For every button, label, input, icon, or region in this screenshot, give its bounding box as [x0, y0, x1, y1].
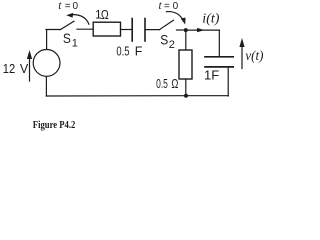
svg-text:V: V: [20, 62, 29, 76]
bottom junction node dot: [184, 94, 188, 98]
svg-text:Figure P4.2: Figure P4.2: [33, 120, 76, 131]
arrow source polarity (12 V, up): [27, 50, 32, 81]
switch S1: [46, 21, 93, 29]
bottom rail wire: [46, 95, 228, 97]
svg-text:12: 12: [3, 62, 15, 76]
svg-text:v(t): v(t): [245, 49, 263, 64]
svg-text:2: 2: [169, 39, 175, 51]
svg-text:t: t: [58, 0, 62, 12]
current arrow i(t): [197, 28, 205, 32]
arrow S1 actuation (curved, head left): [66, 13, 89, 24]
wire node A to right corner: [186, 29, 220, 31]
capacitor C2 1 F: [205, 57, 233, 67]
wire right corner down to capacitor C2: [218, 30, 220, 56]
wire node A down to resistor R2: [185, 30, 187, 50]
svg-text:Ω: Ω: [171, 77, 178, 91]
wire source bottom to bottom rail: [45, 77, 47, 96]
svg-text:0.5: 0.5: [156, 77, 168, 91]
resistor R1 1 ohm: [93, 22, 120, 36]
svg-text:1: 1: [72, 37, 78, 49]
svg-text:0.5: 0.5: [116, 45, 129, 59]
arrow S2 actuation (curved, head down-right): [167, 12, 186, 25]
node A junction dot (top): [184, 28, 188, 32]
wire R1 to capacitor C1: [121, 29, 132, 31]
svg-text:S: S: [63, 30, 71, 46]
svg-text:= 0: = 0: [164, 1, 179, 12]
svg-text:F: F: [135, 45, 143, 59]
wire R2 to bottom junction: [185, 79, 187, 96]
svg-text:= 0: = 0: [65, 1, 79, 12]
svg-text:S: S: [160, 32, 168, 48]
switch S2: [145, 20, 186, 30]
svg-text:t: t: [159, 0, 163, 12]
wire source top to S1 left contact: [46, 30, 48, 50]
svg-text:i(t): i(t): [202, 11, 220, 26]
wire C2 bottom to bottom rail: [227, 67, 229, 96]
svg-text:Ω: Ω: [101, 8, 109, 22]
voltage source V1 (12 V): [33, 50, 60, 77]
capacitor C1 0.5 F: [132, 19, 145, 42]
resistor R2 0.5 ohm: [179, 50, 192, 79]
svg-text:1F: 1F: [204, 68, 219, 83]
arrow v(t) (up): [239, 38, 244, 69]
